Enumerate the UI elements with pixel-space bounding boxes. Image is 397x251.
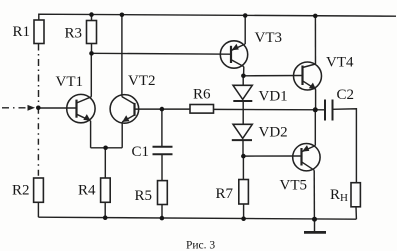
svg-text:R4: R4 bbox=[78, 183, 96, 199]
svg-text:VD2: VD2 bbox=[259, 125, 288, 141]
svg-text:R6: R6 bbox=[193, 87, 211, 103]
node input bbox=[36, 106, 41, 111]
wire node to R4 bbox=[104, 148, 106, 178]
capacitor C1 bbox=[153, 146, 173, 148]
wire RH bottom lead bbox=[355, 207, 357, 219]
node output C2 bbox=[313, 107, 318, 112]
node VT2 base bbox=[160, 107, 165, 112]
wire emitter bus VT1-VT2 bbox=[91, 147, 123, 149]
arrow VT2 emitter (NPN mirrored) bbox=[122, 115, 129, 122]
svg-text:R3: R3 bbox=[65, 26, 83, 42]
wire R5 bottom lead bbox=[161, 205, 163, 219]
svg-text:VD1: VD1 bbox=[259, 89, 288, 105]
svg-text:VT5: VT5 bbox=[280, 178, 308, 194]
node VT3 collector bbox=[241, 74, 246, 79]
arrow VT5 emitter (PNP) bbox=[302, 145, 309, 152]
node rail R7 bbox=[241, 216, 246, 221]
svg-text:Рис. 3: Рис. 3 bbox=[186, 240, 215, 251]
diode VD1 bbox=[233, 85, 252, 99]
transistor VT2 (mirrored) bbox=[110, 95, 139, 124]
wire VT5 base node to R7 bbox=[242, 156, 244, 179]
wire R3 top lead bbox=[91, 15, 93, 21]
wire R3 bottom lead bbox=[91, 44, 93, 54]
wire input node to R2 (dash-dot) bbox=[37, 108, 39, 178]
resistor R3 bbox=[87, 21, 97, 44]
resistor R2 bbox=[34, 178, 44, 202]
wire VD2 to VT5 base node bbox=[242, 140, 244, 156]
svg-text:R2: R2 bbox=[12, 183, 30, 199]
wire C2 right to RH bbox=[333, 109, 357, 183]
wire VT1 base from input node bbox=[38, 107, 76, 109]
wire bottom rail bbox=[38, 217, 356, 219]
node rail R5 bbox=[160, 216, 165, 221]
wire VT4 collector to top rail bbox=[314, 16, 316, 64]
svg-text:R5: R5 bbox=[135, 188, 153, 204]
node rail R4 bbox=[103, 215, 108, 220]
wire R3 node to VT3 base bbox=[92, 52, 232, 55]
wire VT2 base to R6 bbox=[135, 108, 191, 110]
resistor R1 bbox=[34, 20, 44, 44]
ground bbox=[314, 219, 316, 231]
wire VT2 base node down to C1 bbox=[161, 109, 163, 146]
wire VT3 emitter to top rail bbox=[244, 16, 246, 45]
wire VT3 collector node to VT4 base bbox=[243, 75, 302, 77]
wire VD1 to VD2 bbox=[242, 101, 244, 124]
arrow VT4 emitter (NPN) bbox=[309, 83, 316, 90]
wire VT5 base bbox=[243, 155, 301, 157]
node R3 bottom bbox=[89, 51, 94, 56]
node emitter bus bbox=[103, 146, 108, 151]
transistor VT5 (PNP) bbox=[293, 144, 320, 171]
node top rail / VT2 collector bbox=[120, 13, 125, 18]
svg-text:C1: C1 bbox=[132, 144, 150, 160]
wire VT4 emitter to output node bbox=[315, 89, 317, 110]
arrow VT3 emitter (PNP) bbox=[232, 44, 239, 51]
wire VT2 emitter down bbox=[121, 122, 123, 148]
transistor VT1 bbox=[67, 94, 95, 122]
svg-text:RН: RН bbox=[330, 187, 348, 204]
svg-text:VT4: VT4 bbox=[326, 55, 354, 71]
wire VT5 emitter from output node bbox=[314, 110, 316, 146]
resistor R4 bbox=[101, 178, 111, 202]
resistor R5 bbox=[158, 181, 168, 205]
transistor VT3 (PNP) bbox=[220, 41, 247, 68]
wire R2 bottom lead bbox=[37, 202, 39, 217]
svg-text:R7: R7 bbox=[216, 186, 234, 202]
diode VD2 bbox=[233, 124, 252, 138]
wire top supply rail bbox=[39, 14, 396, 20]
wire input line (dash-dot with arrow) bbox=[2, 107, 28, 109]
wire R7 bottom lead bbox=[243, 204, 245, 219]
svg-text:R1: R1 bbox=[13, 24, 31, 40]
wire VT5 collector down bbox=[313, 170, 315, 219]
wire R6 right to output node bbox=[214, 108, 325, 110]
capacitor C2 bbox=[324, 100, 326, 121]
wire R1 bottom to input node bbox=[38, 44, 40, 108]
wire VT2 collector to top rail bbox=[121, 15, 123, 97]
wire VD1 anode lead bbox=[242, 76, 244, 86]
wire VT3 collector down bbox=[243, 67, 245, 76]
svg-text:C2: C2 bbox=[337, 87, 355, 103]
svg-text:VT1: VT1 bbox=[56, 74, 84, 90]
resistor R7 bbox=[239, 180, 249, 205]
wire VT1 emitter down bbox=[90, 121, 92, 148]
node rail ground bbox=[312, 217, 317, 222]
arrow input bbox=[28, 105, 36, 111]
wire C1 to R5 bbox=[161, 154, 163, 180]
resistor R6 bbox=[190, 105, 214, 114]
wire VT1 collector up to R3 node bbox=[90, 53, 92, 96]
arrow VT1 emitter (NPN) bbox=[83, 114, 90, 121]
node top rail / VT3 emitter bbox=[243, 13, 248, 18]
wire R4 bottom lead bbox=[104, 202, 106, 218]
node top rail / R3 bbox=[89, 12, 94, 17]
node VT5 base bbox=[241, 154, 246, 159]
svg-text:VT3: VT3 bbox=[255, 30, 283, 46]
node top rail / VT4 collector bbox=[313, 14, 318, 19]
resistor RH bbox=[351, 183, 360, 207]
transistor VT4 (NPN) bbox=[294, 62, 322, 90]
svg-text:VT2: VT2 bbox=[128, 73, 156, 89]
